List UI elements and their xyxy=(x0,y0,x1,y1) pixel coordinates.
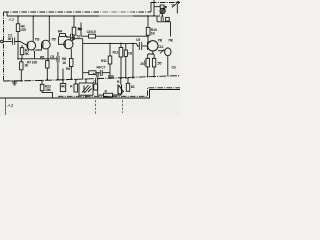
wire osc right down xyxy=(170,22,172,37)
node C10 chassis junction xyxy=(147,76,149,78)
chassis ground bus dash-dot bottom xyxy=(4,76,181,81)
wire rail left stub xyxy=(80,23,82,37)
wire R10 top to bus xyxy=(147,16,149,27)
svg-text:П5: П5 xyxy=(52,38,56,42)
wire R5 top xyxy=(20,59,22,62)
transistor T5 arrow xyxy=(160,6,167,14)
capacitor C8 small xyxy=(124,50,127,56)
wire x63 chassis branch xyxy=(62,69,64,81)
wire input to C1 xyxy=(3,41,12,43)
svg-text:П5: П5 xyxy=(71,37,75,41)
electrolytic C10 xyxy=(146,58,149,67)
transistor T3 xyxy=(64,40,73,49)
wire C10 to chassis xyxy=(147,67,149,77)
wire R18 right xyxy=(113,94,121,95)
svg-text:A3: A3 xyxy=(7,103,14,108)
wire R2 top to bus xyxy=(73,16,75,27)
wire R11 to chassis xyxy=(109,64,111,78)
wire box top horizontal xyxy=(83,42,137,44)
wire bias divider down xyxy=(17,43,19,59)
capacitor C11 xyxy=(126,83,129,91)
svg-text:C5: C5 xyxy=(50,55,54,59)
svg-text:50: 50 xyxy=(8,37,12,41)
node box right chassis junction xyxy=(132,77,134,79)
node pot chassis junction xyxy=(120,78,122,80)
transistor T1 base bar xyxy=(27,42,29,49)
transistor T2 collector wire xyxy=(48,16,50,41)
shield border top-right step vertical xyxy=(150,2,152,12)
wire R8 to chassis xyxy=(70,67,72,80)
block A3 left frame edge xyxy=(5,98,7,115)
svg-text:C8: C8 xyxy=(128,52,132,56)
svg-text:П6: П6 xyxy=(158,39,162,43)
scan fade patch on bus xyxy=(99,11,133,18)
svg-text:C12: C12 xyxy=(158,45,164,49)
diode arrow output xyxy=(160,50,164,54)
svg-text:C6 0,5: C6 0,5 xyxy=(87,30,96,34)
node C5 chassis junction xyxy=(57,79,59,81)
transistor T3 emitter wire xyxy=(70,48,72,58)
node inner top junction xyxy=(109,43,111,45)
svg-text:A2: A2 xyxy=(8,17,15,22)
wire R5 to chassis xyxy=(20,70,22,81)
supply bus wire top xyxy=(7,15,148,17)
wire feedback box left vertical xyxy=(82,43,84,79)
wire R6 to chassis xyxy=(46,68,48,79)
wire B1 to chassis xyxy=(167,56,169,76)
wire C9 to T4 base xyxy=(142,45,148,47)
node T5 bus junction xyxy=(162,15,164,17)
section divider dashed vertical right xyxy=(122,100,124,113)
wire C1 to T1 base xyxy=(15,42,28,45)
svg-text:ПЄ: ПЄ xyxy=(169,39,174,43)
svg-text::55: :55 xyxy=(157,62,162,66)
wire A1 frame to R20 xyxy=(154,6,160,8)
node R11 chassis junction xyxy=(109,77,111,79)
capacitor C6 coupling small xyxy=(89,34,96,38)
wire C8 bottom xyxy=(125,56,127,78)
wire R2 bottom to T3 collector xyxy=(72,35,75,41)
wire T4 output xyxy=(158,50,165,52)
node R4 right junction xyxy=(66,36,68,38)
capacitor C4 bars xyxy=(70,34,72,41)
svg-text:R7 100: R7 100 xyxy=(27,61,37,65)
shield border top-right horizontal xyxy=(151,2,180,4)
svg-text:R9: R9 xyxy=(66,67,70,71)
earphone B1 xyxy=(165,48,171,56)
wire T3 base vertical xyxy=(59,37,66,45)
transistor T1 emitter wire xyxy=(34,49,35,58)
node R2 bus junction xyxy=(73,15,75,17)
svg-text:1K: 1K xyxy=(24,64,29,68)
resistor R10 collector load T4 xyxy=(146,27,150,35)
resistor R21 small xyxy=(166,17,170,21)
node T1 collector bus junction xyxy=(32,15,34,17)
input terminal xyxy=(1,40,4,43)
wire box right edge xyxy=(132,43,134,77)
svg-text:1K: 1K xyxy=(151,32,156,36)
wire T1 collector to T2 base xyxy=(36,45,43,50)
wire C4 to R2 xyxy=(73,36,74,38)
svg-text:63: 63 xyxy=(131,85,135,89)
resistor R4 horizontal xyxy=(59,34,65,37)
section divider dashed vertical left xyxy=(95,100,97,115)
resistor R11 xyxy=(108,56,112,64)
transistor T2 xyxy=(41,40,50,49)
svg-text:51: 51 xyxy=(77,34,81,38)
resistor R5 lower xyxy=(20,62,23,70)
wire jack bottom xyxy=(85,95,87,98)
wire R14 top junction xyxy=(41,81,43,85)
node jack chassis junction xyxy=(85,79,87,81)
node x63 chassis junction xyxy=(62,79,64,81)
block A2 bottom border dash-dot right portion xyxy=(58,88,180,97)
svg-text:R11: R11 xyxy=(101,59,107,63)
capacitor C7 bars xyxy=(100,70,102,76)
wire long mid rail xyxy=(81,35,148,37)
node T2 collector bus junction xyxy=(49,15,51,17)
wire C8 top xyxy=(125,43,127,50)
node R1 bus junction xyxy=(17,15,19,17)
wire R4 to collector node xyxy=(65,35,70,37)
wire R3 stubs xyxy=(21,45,23,59)
supply bus left stub xyxy=(6,13,8,17)
wire R12 to chassis xyxy=(120,57,122,78)
block A3 frame top solid xyxy=(0,90,180,99)
wire collector to box xyxy=(74,39,83,44)
resistor R1 xyxy=(16,24,20,32)
wire R17 stub xyxy=(95,79,97,84)
wire R15 to chassis xyxy=(62,80,64,84)
svg-text:20: 20 xyxy=(140,62,144,66)
wire emitter R7 horizontal xyxy=(18,58,58,60)
node oscillator bus junction2 xyxy=(153,15,155,17)
resistor R18 horizontal xyxy=(104,93,113,97)
svg-text:10K: 10K xyxy=(45,88,51,92)
node R16 chassis junction xyxy=(75,79,77,81)
block A1 frame vertical xyxy=(153,0,155,16)
resistor R3 xyxy=(20,48,24,55)
capacitor C5 xyxy=(57,56,59,62)
node C8 chassis junction xyxy=(125,77,127,79)
shield border top dash-dot xyxy=(4,11,152,13)
svg-text:R5: R5 xyxy=(40,56,44,60)
detector transistor T5 xyxy=(160,8,165,13)
coupling resistor R14 below chassis xyxy=(40,84,44,90)
wire jack top xyxy=(85,79,87,83)
node R12 top junction xyxy=(120,43,122,45)
svg-text:R9 C7: R9 C7 xyxy=(97,65,106,69)
svg-text:R12: R12 xyxy=(113,51,119,55)
resistor R13 xyxy=(152,58,155,67)
transistor T4 base bar xyxy=(147,42,149,51)
node T2 emitter junction xyxy=(47,58,49,60)
transistor T4 xyxy=(148,41,158,51)
node R12 chassis junction xyxy=(120,77,122,79)
wire R16 to chassis xyxy=(75,80,77,84)
capacitor C9 coupling to T4 xyxy=(139,42,141,50)
resistor R8 emitter xyxy=(70,59,74,67)
svg-text:R8: R8 xyxy=(78,27,82,31)
wire R10 bottom to T4 collector xyxy=(148,35,151,42)
transistor T2 emitter wire xyxy=(48,49,58,61)
capacitor C12 bars xyxy=(161,17,163,22)
node C11 chassis junction xyxy=(127,77,129,79)
resistor R2 collector load xyxy=(72,27,76,35)
wire C11 top xyxy=(127,78,129,83)
resistor R9 horizontal bottom of box xyxy=(89,71,96,75)
node box right top junction xyxy=(132,43,134,45)
node base divider junction xyxy=(17,41,19,43)
jack contacts xyxy=(82,85,92,93)
wire inner vertical branch xyxy=(109,43,111,56)
node R6 chassis junction xyxy=(47,79,49,81)
transistor T4 emitter split xyxy=(148,51,154,58)
resistor R20 top xyxy=(160,5,164,8)
wire R12 branch vertical xyxy=(120,43,122,47)
node R13 chassis junction xyxy=(153,76,155,78)
node R8 chassis junction xyxy=(71,78,73,80)
transistor T1 collector wire xyxy=(32,16,34,42)
svg-text:R16: R16 xyxy=(108,74,114,78)
svg-text:5K: 5K xyxy=(25,52,30,56)
resistor R16 xyxy=(74,84,78,92)
node rail R10 junction xyxy=(147,35,149,37)
wire x97 vertical lower xyxy=(97,79,99,93)
wire osc lower horizontal xyxy=(157,21,171,23)
wire box rail to C9 xyxy=(137,43,140,46)
antenna arrow xyxy=(172,2,179,8)
svg-text:C9: C9 xyxy=(136,38,140,42)
wire R9 C7 connections xyxy=(83,72,110,74)
transistor T3 base bar xyxy=(64,41,66,48)
node x97 chassis junction xyxy=(97,78,99,80)
node R15 chassis junction xyxy=(62,79,64,81)
transistor T2 base bar xyxy=(42,41,44,48)
svg-text:Сп: Сп xyxy=(172,66,176,70)
output network R15 xyxy=(60,84,65,92)
wire R14 bottom elbow xyxy=(42,91,53,98)
node R2 bottom junction xyxy=(73,38,75,40)
wire C5 to chassis xyxy=(57,62,59,79)
transistor T1 xyxy=(27,41,36,50)
node R10 bus junction xyxy=(147,15,149,17)
wire right edge vertical xyxy=(176,4,178,14)
resistor R17 small xyxy=(94,84,98,90)
volume pot R19 xyxy=(118,85,122,94)
wire osc vertical left xyxy=(156,16,158,22)
shield border left dash-dot xyxy=(3,12,5,81)
svg-text:R4: R4 xyxy=(58,29,62,33)
node R3 bottom junction xyxy=(17,58,19,60)
svg-text:470: 470 xyxy=(21,28,26,32)
wire R1 top to bus xyxy=(17,16,19,24)
wire R13 to chassis xyxy=(153,67,155,76)
svg-text:4K: 4K xyxy=(61,85,66,89)
wire R18 left xyxy=(98,93,104,95)
capacitor C1 xyxy=(12,38,14,45)
resistor R6 emitter xyxy=(46,61,49,69)
jack box X1 xyxy=(79,83,93,95)
node R14 chassis junction xyxy=(41,80,43,82)
ground symbol xyxy=(11,81,18,85)
wire pot top xyxy=(120,78,122,84)
wire T5 down xyxy=(161,14,163,17)
node oscillator bus junction xyxy=(147,15,149,17)
wire R1 bottom to input line xyxy=(17,32,19,42)
resistor R12 xyxy=(119,48,123,58)
wire bus into A1 xyxy=(148,15,160,17)
